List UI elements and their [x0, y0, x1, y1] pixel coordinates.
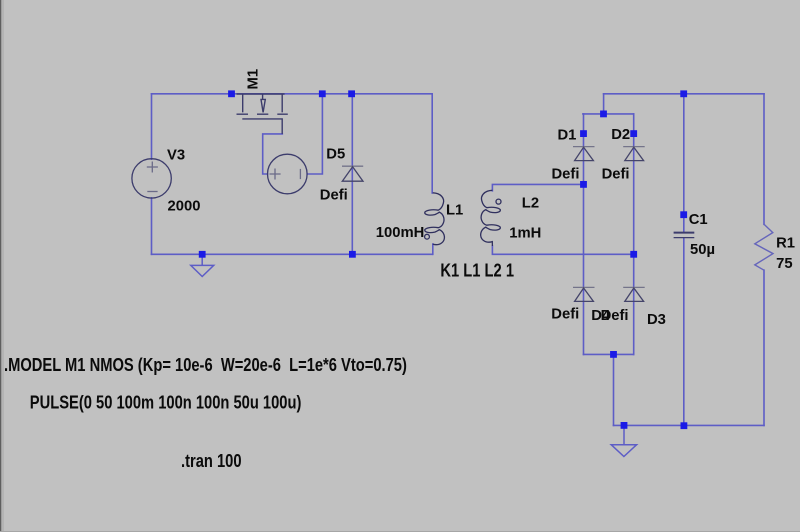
- wire R1 top: [763, 94, 765, 225]
- svg-text:Defi: Defi: [551, 307, 579, 323]
- node D1 cathode: [580, 130, 587, 137]
- node bridge feed: [600, 111, 607, 118]
- node C1 top: [680, 211, 687, 218]
- svg-text:75: 75: [776, 256, 792, 272]
- wire top rail left: [152, 93, 433, 95]
- node driver-right rail: [319, 90, 326, 97]
- ground symbol left: [191, 254, 214, 276]
- wire L2 bottom: [492, 246, 633, 254]
- svg-text:V3: V3: [167, 147, 185, 163]
- node C1 rail: [680, 90, 687, 97]
- svg-text:100mH: 100mH: [376, 225, 425, 241]
- svg-text:Defi: Defi: [552, 166, 580, 182]
- node L2 bottom junction: [630, 251, 637, 258]
- svg-text:C1: C1: [689, 212, 708, 228]
- wire rail top right: [604, 93, 764, 95]
- wire L1 bottom lead: [432, 244, 434, 254]
- svg-text:Defi: Defi: [602, 166, 630, 182]
- diode D3: [623, 287, 645, 301]
- wire bridge feed: [603, 94, 605, 114]
- svg-text:2000: 2000: [168, 198, 201, 214]
- svg-text:50µ: 50µ: [690, 242, 715, 258]
- wire R1 bottom: [763, 270, 765, 425]
- svg-text:Defi: Defi: [320, 188, 348, 204]
- wire V3 bottom: [151, 198, 153, 255]
- svg-text:L2: L2: [522, 195, 539, 211]
- node D5 bottom: [349, 251, 356, 258]
- wire D5 vertical: [351, 94, 353, 255]
- svg-text:.MODEL M1 NMOS (Kp= 10e-6 W=2: .MODEL M1 NMOS (Kp= 10e-6 W=20e-6 L=1e*6…: [4, 355, 407, 376]
- node D2 cathode: [630, 130, 637, 137]
- node ground left: [199, 251, 206, 258]
- node L2 top junction: [580, 181, 587, 188]
- svg-text:PULSE(0 50 100m 100n 100n 50u: PULSE(0 50 100m 100n 100n 50u 100u): [30, 392, 302, 413]
- wire bridge bottom bar: [584, 353, 634, 355]
- diode D2: [623, 147, 645, 161]
- wire bottom rail right: [614, 424, 765, 426]
- svg-text:.tran 100: .tran 100: [181, 450, 242, 471]
- svg-text:L1: L1: [446, 203, 463, 219]
- wire D2 chain vertical: [633, 114, 635, 355]
- gate driver source (behind M1 source): [268, 154, 308, 194]
- wire C1 vertical bottom: [683, 238, 685, 425]
- capacitor C1: [674, 233, 695, 238]
- svg-text:1mH: 1mH: [509, 226, 541, 242]
- wire bridge mid down: [613, 354, 615, 425]
- junction squares: [199, 90, 688, 429]
- wire bottom rail left: [152, 253, 433, 255]
- svg-text:D2: D2: [611, 127, 630, 143]
- node C1 bottom rail: [681, 422, 688, 429]
- svg-text:R1: R1: [776, 235, 795, 251]
- wire L1 top lead: [431, 94, 433, 193]
- diode D1: [573, 147, 595, 161]
- svg-text:D5: D5: [326, 146, 345, 162]
- node top-left gate: [228, 90, 235, 97]
- transistor M1: [237, 94, 288, 134]
- wire L2 top: [492, 184, 583, 190]
- svg-text:Defi: Defi: [601, 308, 629, 324]
- svg-text:D1: D1: [558, 128, 577, 144]
- inductor L2: [481, 190, 501, 246]
- voltage source V3: [132, 159, 171, 198]
- diode D5: [342, 166, 363, 181]
- svg-text:M1: M1: [246, 69, 262, 90]
- wire V3 top: [151, 94, 153, 159]
- wire C1 vertical top: [683, 94, 685, 232]
- node D5 rail: [348, 90, 355, 97]
- wire driver right to rail: [307, 94, 322, 174]
- inductor L1: [425, 193, 445, 245]
- svg-text:K1 L1 L2 1: K1 L1 L2 1: [440, 260, 514, 281]
- node ground right: [621, 422, 628, 429]
- resistor R1: [755, 224, 773, 270]
- window bottom edge: [0, 531, 800, 532]
- ground symbol right: [611, 425, 636, 456]
- wire bridge top bar: [583, 113, 634, 115]
- diode D4: [573, 287, 595, 301]
- window left edge: [0, 0, 1, 532]
- node bridge bottom: [610, 351, 617, 358]
- wire D1 chain vertical: [583, 114, 585, 355]
- wire M1 source to driver plus: [263, 134, 283, 174]
- svg-text:D3: D3: [647, 312, 666, 328]
